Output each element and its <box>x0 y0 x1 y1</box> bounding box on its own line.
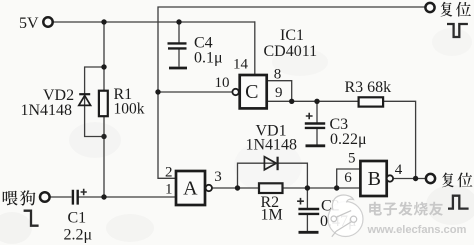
svg-text:5V: 5V <box>19 15 39 32</box>
svg-text:4: 4 <box>395 162 403 178</box>
waveform positive pulse (reset bottom) <box>448 196 469 209</box>
svg-text:B: B <box>368 168 381 190</box>
wire C3 lead <box>316 101 318 145</box>
bubble pin10 output of C <box>232 89 238 95</box>
wire A out to B pin6 <box>212 187 360 189</box>
bubble pin3 output of A <box>206 185 212 191</box>
node A-out/VD1/R2 <box>235 185 240 190</box>
node B5 branch <box>334 185 339 190</box>
node 5V/C4 <box>176 19 181 24</box>
svg-text:9: 9 <box>275 85 283 101</box>
terminal reset top <box>425 3 434 12</box>
svg-text:6: 6 <box>344 170 352 186</box>
label reset (fuwei) top <box>441 2 453 17</box>
op-gate U1B (CD4011 NAND B) <box>360 161 386 196</box>
wire R3 to B output node <box>383 101 416 178</box>
wire R1 branch vertical <box>103 22 105 197</box>
label reset (fuwei) bottom <box>442 173 454 188</box>
diode VD1 1N4148 (pointing right) <box>264 157 276 170</box>
node R1-VD2 bottom <box>101 134 106 139</box>
waveform falling edge (input) <box>24 211 39 226</box>
wire C4 lead <box>178 22 180 67</box>
svg-text:1M: 1M <box>261 207 283 224</box>
capacitor C2 <box>298 209 319 214</box>
wire VD1 loop <box>238 163 308 188</box>
label feed-dog (weigou) input <box>3 191 18 206</box>
wire pin10 output to node <box>158 91 232 93</box>
svg-text:2.2μ: 2.2μ <box>64 227 93 244</box>
diode VD2 1N4148 (pointing up) <box>79 93 90 95</box>
watermark text dianzifashaoyou <box>369 202 382 216</box>
svg-text:1: 1 <box>165 182 173 198</box>
node C-out node <box>155 89 160 94</box>
svg-text:R3 68k: R3 68k <box>345 79 392 96</box>
wire input to C1 <box>50 196 72 198</box>
wire pin9 to R3 <box>267 100 359 102</box>
svg-text:www.elecfans.com: www.elecfans.com <box>367 224 467 236</box>
wire top reset line <box>158 7 425 178</box>
wire C2 lead <box>306 188 308 231</box>
svg-text:IC1: IC1 <box>280 27 304 44</box>
resistor R3 68k <box>359 97 384 106</box>
resistor R2 1M <box>259 183 283 193</box>
node C3/R3 node <box>314 99 319 104</box>
svg-text:A: A <box>183 177 198 199</box>
svg-text:0.1μ: 0.1μ <box>194 50 223 67</box>
svg-text:C: C <box>245 81 258 103</box>
svg-text:0.22μ: 0.22μ <box>330 131 367 148</box>
svg-text:100k: 100k <box>114 101 145 118</box>
plus sign C2 <box>297 198 304 205</box>
ground below C4 <box>169 67 187 70</box>
wire VD2 parallel branch <box>85 67 104 137</box>
wire pin14 VDD drop <box>254 21 256 75</box>
plus sign C3 <box>306 113 313 120</box>
op-gate U1C (CD4011 NAND C) <box>240 75 267 108</box>
node 5V/R1 <box>101 19 106 24</box>
capacitor C1 2.2u (horizontal) <box>73 190 78 205</box>
svg-text:2: 2 <box>165 164 173 180</box>
plus sign C1 <box>81 189 87 196</box>
wire B pin5 branch <box>337 169 361 188</box>
svg-text:3: 3 <box>214 169 222 185</box>
node Bout/R3 <box>413 176 418 181</box>
node VD1/R2/C2 <box>305 185 310 190</box>
waveform negative pulse (reset top) <box>447 24 468 37</box>
node R1-VD2 top <box>101 64 106 69</box>
wire 5V rail <box>53 21 255 23</box>
svg-text:5: 5 <box>348 150 356 166</box>
ground below C2 <box>299 231 319 234</box>
capacitor C3 0.22u <box>305 124 325 128</box>
svg-text:14: 14 <box>233 56 249 72</box>
wire C1 to A pin1 <box>79 196 177 198</box>
op-gate U1A (CD4011 NAND A) <box>176 171 205 205</box>
capacitor C4 0.1u <box>168 43 187 48</box>
svg-text:C1: C1 <box>68 210 87 227</box>
wire B out to reset terminal <box>393 178 426 180</box>
resistor R1 100k <box>99 91 108 117</box>
svg-text:10: 10 <box>215 75 230 91</box>
ground below C3 <box>306 144 326 147</box>
terminal feed-dog input <box>40 192 50 202</box>
terminal 5V <box>43 17 52 26</box>
watermark logo circle <box>328 195 363 237</box>
svg-text:1N4148: 1N4148 <box>21 102 73 119</box>
node C1/R1/A1 <box>101 194 106 199</box>
terminal reset bottom <box>426 174 435 183</box>
wire pin8 tie <box>267 81 292 102</box>
node pin8/9 tie <box>289 99 294 104</box>
bubble pin4 output of B <box>387 175 393 181</box>
